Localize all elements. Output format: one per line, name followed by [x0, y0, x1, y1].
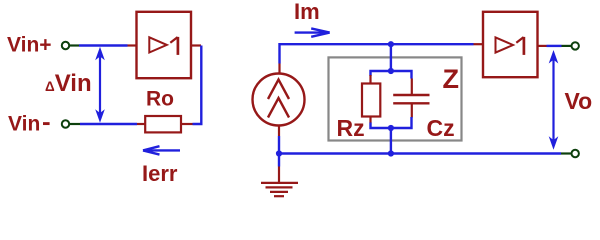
I1 arrow chevron lower: [268, 98, 289, 118]
wire Vin+ to buffer U1: [79, 44, 128, 46]
wire U1 output down to resistor Ro: [193, 46, 202, 125]
I1 arrow chevron upper: [268, 80, 289, 100]
Im current arrow: [295, 28, 330, 36]
impedance Z outline box (gray): [329, 57, 462, 140]
dVin measurement arrow (double headed): [95, 47, 105, 123]
U2 triangle symbol: [496, 37, 514, 52]
pin stub (red) U2 output: [538, 45, 547, 47]
wire bottom rail: [279, 152, 561, 154]
U2 gain label 1: [516, 37, 524, 55]
capacitor Cz top lead (red): [411, 79, 413, 95]
wire Z bottom split: [371, 117, 412, 128]
pin stub (red) U1 output: [191, 44, 201, 46]
junction Z top split: [388, 68, 394, 74]
svg-text:Ierr: Ierr: [142, 161, 178, 186]
svg-text:Vo: Vo: [565, 88, 593, 114]
wire out of Z box (bottom): [390, 128, 392, 154]
I1 bottom lead (red): [278, 126, 280, 137]
svg-text:Rz: Rz: [337, 115, 365, 141]
svg-text:Ro: Ro: [146, 88, 174, 111]
Ierr current arrow: [143, 146, 180, 154]
pin stub (green) at Vin- terminal: [70, 123, 81, 125]
svg-text:Vin+: Vin+: [7, 34, 52, 57]
wire Z top split: [371, 71, 412, 79]
svg-text:Z: Z: [443, 64, 460, 94]
terminal Vo+: [572, 42, 579, 49]
resistor Ro: [145, 116, 181, 132]
wire U2 output to Vo terminal: [547, 45, 562, 47]
current source I1: [253, 74, 305, 126]
wire into Z box (top): [390, 44, 392, 71]
U1 gain label 1: [170, 37, 178, 55]
Vo measurement arrow (double headed): [549, 50, 559, 150]
pin stub (green) at Vo- terminal: [561, 152, 571, 154]
junction ground node: [276, 150, 282, 156]
junction bottom rail / Z: [388, 150, 394, 156]
wire Ro to Vin- terminal: [80, 123, 137, 125]
op-amp buffer U2 box: [483, 12, 538, 77]
resistor Ro left lead: [137, 123, 145, 125]
svg-text:Im: Im: [294, 0, 320, 24]
wire I1 bottom to ground node: [278, 136, 280, 167]
pin stub (green) at Vo+ terminal: [562, 45, 572, 47]
pin stub (green) at Vin+ terminal: [70, 44, 80, 46]
op-amp buffer U1 box: [137, 12, 192, 78]
resistor Ro right lead: [181, 123, 193, 125]
terminal Vin-: [62, 120, 69, 127]
resistor Rz: [369, 75, 371, 84]
Rz bottom lead (red): [369, 117, 371, 124]
svg-text:Vin: Vin: [8, 113, 40, 136]
junction top rail / Z: [388, 41, 394, 47]
pin stub (red) U2 input: [474, 43, 484, 45]
U1 triangle symbol: [149, 37, 167, 52]
svg-text:Cz: Cz: [427, 115, 455, 141]
ground symbol: [261, 183, 298, 196]
ground stem (red): [278, 167, 280, 184]
I1 top lead (red): [278, 64, 280, 74]
wire top rail (current source to U2 input): [280, 44, 474, 63]
capacitor Cz plates: [393, 95, 429, 103]
terminal Vo-: [572, 150, 579, 157]
capacitor Cz bottom lead (red): [411, 104, 413, 118]
terminal Vin+: [62, 42, 69, 49]
junction Z bottom split: [388, 125, 394, 131]
pin stub (red) U1 input: [128, 44, 137, 46]
